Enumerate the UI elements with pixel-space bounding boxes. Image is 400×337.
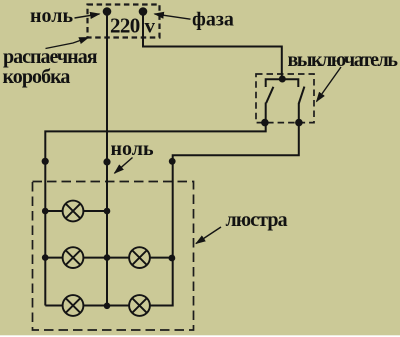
lamp L5: [129, 295, 150, 316]
svg-text:фаза: фаза: [192, 9, 234, 31]
node: switch input: [279, 76, 286, 83]
svg-text:выключатель: выключатель: [288, 49, 399, 71]
svg-text:распаечная: распаечная: [3, 46, 98, 68]
wire: lamp row 1: [45, 210, 107, 212]
node: junction box phase: [139, 7, 148, 16]
switch right contact: [298, 103, 300, 123]
svg-text:220: 220: [110, 14, 140, 38]
arrow: люстра to chandelier box: [196, 227, 221, 244]
svg-text:ноль: ноль: [111, 138, 154, 160]
wire: switch top bar: [266, 79, 299, 87]
lamp L1: [63, 201, 84, 222]
arrow: ноль to neutral node: [75, 14, 100, 18]
arrow: фаза to phase node: [155, 14, 191, 19]
node: rail right row2: [169, 255, 176, 262]
wire: phase from junction box to switch: [143, 12, 282, 80]
node: rail neutral row3: [104, 303, 111, 310]
arrow: распаечная коробка to junction box: [46, 38, 89, 49]
arrow: выключатель to switch box: [317, 67, 342, 102]
switch box (выключатель) dashed: [256, 74, 314, 123]
wire: lamp row 3: [45, 305, 150, 307]
chandelier box (люстра) dashed: [33, 182, 194, 331]
lamp L3: [129, 247, 150, 268]
arrow: ноль to neutral wire: [115, 158, 133, 174]
wire: switched line 1 to left lamp rail: [45, 123, 265, 306]
node: rail neutral row1: [104, 208, 111, 215]
node: ceiling left: [42, 158, 49, 165]
node: junction box neutral: [103, 7, 112, 16]
switch left contact: [265, 103, 267, 124]
wire: neutral main vertical: [106, 12, 108, 307]
wire: lamp row 2: [45, 257, 172, 259]
switch lever right: [299, 87, 305, 104]
lamp L4: [63, 295, 84, 316]
junction box (распаечная коробка) dashed: [88, 5, 160, 38]
node: ceiling right: [169, 158, 176, 165]
svg-text:v: v: [145, 14, 156, 38]
node: rail left row1: [42, 208, 49, 215]
switch lever left: [266, 87, 273, 103]
wire: switched line 2 to right lamp rail: [150, 123, 299, 306]
node: ceiling neutral: [103, 158, 110, 165]
svg-text:люстра: люстра: [226, 209, 288, 231]
node: switch output right: [295, 119, 303, 127]
lamp L2: [63, 247, 84, 268]
node: rail neutral row2: [104, 254, 111, 261]
node: switch output left: [261, 119, 269, 127]
svg-text:коробка: коробка: [3, 66, 71, 88]
node: rail left row2: [42, 254, 49, 261]
svg-text:ноль: ноль: [30, 5, 73, 27]
